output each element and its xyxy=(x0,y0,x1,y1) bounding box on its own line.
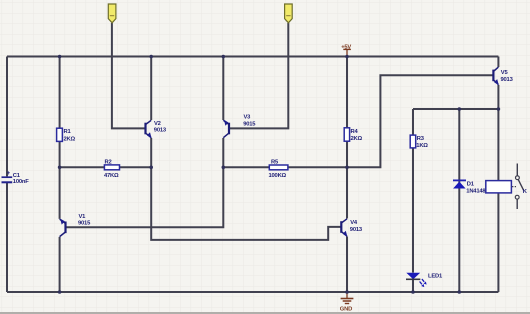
LED1 xyxy=(406,273,443,287)
svg-text:R4: R4 xyxy=(351,129,359,135)
wire top +5V rail xyxy=(7,56,498,58)
svg-text:D1: D1 xyxy=(467,181,475,187)
wire left rail upper (to C1) xyxy=(6,57,8,177)
transistor V3 (PNP, mirrored) xyxy=(223,115,256,138)
wire D1 column xyxy=(458,109,460,292)
svg-text:1N4148: 1N4148 xyxy=(466,188,486,194)
svg-text:+5V: +5V xyxy=(341,44,351,50)
connector pin 2 flag xyxy=(285,4,293,23)
svg-text:9015: 9015 xyxy=(243,121,256,127)
transistor V5 (NPN) xyxy=(493,67,513,85)
node GND-rail xyxy=(345,290,349,294)
transistor V4 (NPN) xyxy=(341,219,363,237)
wire pin2 stem to V3 base xyxy=(230,23,289,128)
svg-text:R3: R3 xyxy=(417,136,425,142)
power +5V xyxy=(341,44,351,56)
resistor R5 xyxy=(269,159,288,179)
node LED1-rail xyxy=(411,290,415,294)
wire top rail drop to V5 collector xyxy=(497,57,499,68)
node V5 emitter xyxy=(497,107,501,111)
svg-text:GND: GND xyxy=(340,307,352,313)
svg-text:R5: R5 xyxy=(271,159,279,165)
wire R1 top feed xyxy=(59,57,61,129)
resistor R2 xyxy=(104,159,120,179)
svg-text:LED1: LED1 xyxy=(428,274,443,280)
wire V3 collector(top) to rail xyxy=(222,57,224,121)
svg-text:9015: 9015 xyxy=(78,220,91,226)
svg-text:9013: 9013 xyxy=(154,128,167,134)
relay coil K xyxy=(486,181,516,193)
wire LED1 cathode to rail xyxy=(412,279,414,292)
resistor R1 xyxy=(57,128,76,142)
wire V1 emitter to bottom rail xyxy=(59,237,61,292)
svg-text:2KΩ: 2KΩ xyxy=(351,136,363,142)
diode D1 1N4148 xyxy=(453,180,486,194)
wire V4 emitter to ground rail xyxy=(346,237,348,293)
svg-text:R1: R1 xyxy=(64,129,72,135)
node R2 left xyxy=(58,166,62,170)
relay contact K xyxy=(515,164,528,210)
capacitor C1 xyxy=(2,171,30,185)
wire V5 emitter down to relay coil xyxy=(497,85,499,181)
wire R2 row xyxy=(60,166,152,168)
wire R1 bottom to V1 collector xyxy=(59,141,61,219)
connector pin 1 flag xyxy=(108,4,116,23)
svg-text:9013: 9013 xyxy=(501,77,514,83)
svg-text:100KΩ: 100KΩ xyxy=(269,173,287,179)
resistor R3 xyxy=(410,135,428,149)
svg-text:V3: V3 xyxy=(244,115,252,121)
wire pin1 stem to V2 base xyxy=(112,23,145,128)
node V1 emitter-rail xyxy=(58,290,62,294)
svg-text:2KΩ: 2KΩ xyxy=(64,136,76,142)
resistor R4 xyxy=(344,128,362,142)
wire node row R3/D1/V5-emitter xyxy=(413,108,498,110)
wire bottom ground rail xyxy=(7,291,498,293)
node rail-V3 xyxy=(222,55,226,59)
svg-text:9013: 9013 xyxy=(350,227,363,233)
svg-text:R2: R2 xyxy=(105,159,112,165)
wire V2 collector to rail xyxy=(150,57,152,121)
node D1-rail xyxy=(458,290,462,294)
svg-text:V1: V1 xyxy=(79,214,87,220)
svg-text:V4: V4 xyxy=(350,220,358,226)
wire V3 bottom terminal down to V1 base row xyxy=(66,138,223,227)
svg-text:47KΩ: 47KΩ xyxy=(104,173,119,179)
wire R3 top feed xyxy=(412,109,414,135)
wire V2 emitter down, across, up to V4 base xyxy=(151,138,341,240)
svg-text:100nF: 100nF xyxy=(13,179,29,185)
transistor V2 (NPN) xyxy=(146,120,167,138)
wire R3 bottom to LED1 xyxy=(412,148,414,273)
ground GND xyxy=(340,292,354,313)
node R5 left xyxy=(222,166,226,170)
svg-text:1KΩ: 1KΩ xyxy=(416,143,428,149)
transistor V1 (PNP, mirrored) xyxy=(60,214,91,237)
svg-text:V5: V5 xyxy=(501,70,509,76)
wire +5V column through R4 to V4 collector xyxy=(346,57,348,129)
wire relay coil to ground rail xyxy=(497,193,499,292)
node R5-V4 collector xyxy=(345,166,349,170)
node rail-R1 xyxy=(58,55,62,59)
wire R5 row to V5 base xyxy=(223,75,493,167)
svg-text:V2: V2 xyxy=(154,121,161,127)
node rail-V2 collector xyxy=(149,55,153,59)
svg-text:+: + xyxy=(7,171,11,177)
node R2 right xyxy=(149,166,153,170)
node D1 top xyxy=(458,107,462,111)
wire left rail lower (C1 to bottom) xyxy=(6,183,8,292)
node rail-+5V xyxy=(345,55,349,59)
